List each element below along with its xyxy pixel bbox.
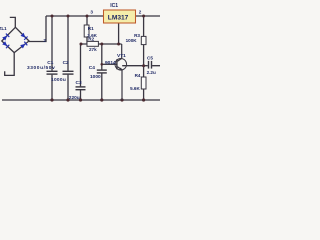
svg-text:1000u: 1000u: [51, 77, 66, 83]
wire C3 drop: [80, 44, 82, 100]
wire R1 drop: [86, 16, 88, 44]
wire bottom rail: [2, 99, 160, 101]
resistor R2: [87, 41, 98, 46]
junction dots top bus: [51, 15, 146, 18]
junction dots ADJ wire: [80, 43, 146, 68]
svg-text:2.2u: 2.2u: [147, 70, 156, 75]
svg-text:3300u/50v: 3300u/50v: [27, 65, 55, 71]
svg-text:C5: C5: [147, 55, 153, 60]
svg-text:2: 2: [139, 9, 142, 14]
transistor VT1: [115, 44, 127, 100]
capacitor C5 plates: [148, 61, 152, 69]
resistor R1: [84, 25, 89, 37]
wire top bus: [46, 15, 160, 17]
svg-text:LM317: LM317: [108, 15, 129, 22]
wire VT1 base: [102, 63, 117, 65]
svg-text:3: 3: [90, 10, 93, 15]
wire AC input stub bottom-left: [5, 53, 15, 76]
capacitor C2 plates: [63, 71, 74, 75]
svg-text:R2: R2: [88, 36, 94, 41]
diode VD2 (NE edge): [20, 33, 28, 41]
svg-text:VT1: VT1: [117, 53, 126, 59]
wire C1 drop: [51, 16, 53, 100]
diode VD3 (SW edge): [2, 41, 10, 49]
wire LM317 ADJ pin drop: [118, 23, 120, 44]
wire DC+ from bridge right vertex up to bus: [29, 16, 46, 42]
wire C2 drop: [67, 16, 69, 100]
resistor R3: [141, 36, 146, 44]
svg-text:220u: 220u: [69, 95, 80, 101]
wire ADJ horizontal: [81, 43, 122, 45]
wire AC input stub top-left: [10, 17, 16, 27]
svg-text:R4: R4: [135, 73, 141, 78]
svg-text:C3: C3: [76, 80, 82, 86]
svg-text:1000: 1000: [90, 74, 101, 80]
svg-text:C4: C4: [89, 65, 95, 71]
junction dots bottom rail: [50, 98, 145, 101]
capacitor C1 plates: [47, 71, 58, 75]
svg-text:IC1: IC1: [110, 3, 118, 9]
resistor R4: [141, 77, 146, 89]
wire C4 drop: [101, 44, 103, 100]
svg-text:R1: R1: [88, 26, 94, 31]
svg-text:9014: 9014: [105, 60, 116, 66]
capacitor C4 plates: [97, 69, 107, 73]
background: [0, 0, 160, 110]
wire R3 R4 column: [143, 16, 145, 100]
svg-text:ZL1: ZL1: [0, 26, 7, 31]
wire VT1 emitter branch to output: [122, 65, 160, 67]
svg-text:5.6K: 5.6K: [130, 86, 140, 91]
svg-text:C2: C2: [63, 60, 69, 66]
svg-text:100K: 100K: [126, 38, 138, 43]
diode VD4 (SE edge): [20, 41, 28, 48]
capacitor C3 plates: [76, 86, 86, 90]
IC U1 LM317 box: [104, 10, 136, 23]
diode VD1 (NW edge): [2, 33, 10, 41]
svg-text:27k: 27k: [89, 47, 97, 52]
bridge rectifier ZL1 diamond wires: [2, 27, 29, 52]
